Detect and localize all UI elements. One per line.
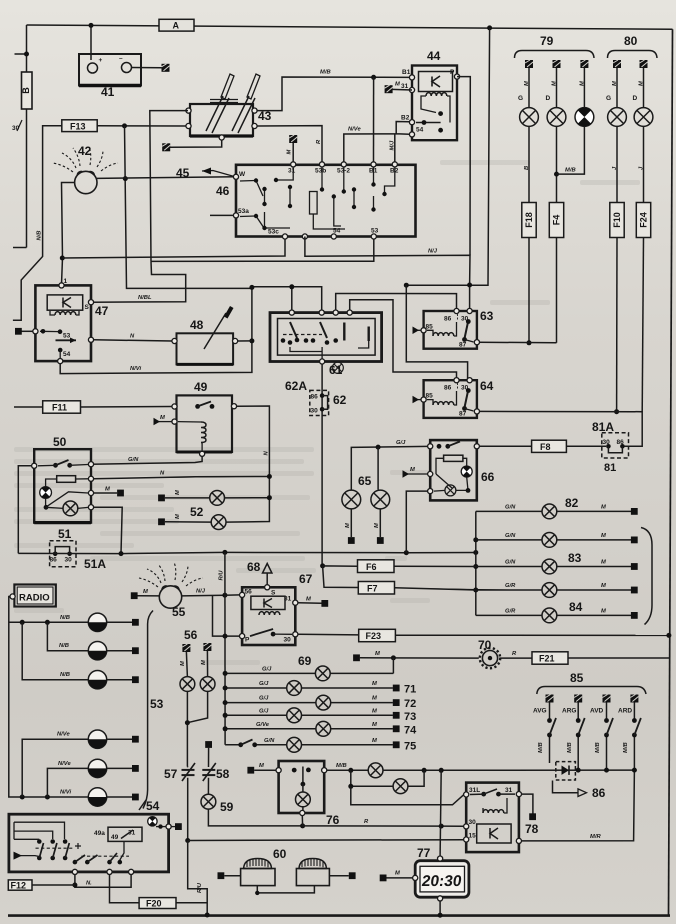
svg-text:M: M bbox=[612, 81, 618, 86]
top supply wire bbox=[27, 25, 673, 29]
lighting switch 66 bbox=[332, 362, 494, 500]
junction top right panel bbox=[487, 25, 492, 30]
connector battery minus bbox=[162, 64, 170, 72]
relay 47 bbox=[33, 278, 109, 364]
svg-text:49a: 49a bbox=[94, 830, 105, 837]
wire 61 bottom to 62 bbox=[321, 364, 323, 566]
svg-text:85: 85 bbox=[426, 324, 434, 331]
svg-text:68: 68 bbox=[247, 560, 261, 574]
wire 55 NJ to bus and 67 bbox=[182, 594, 225, 597]
svg-text:M: M bbox=[601, 560, 606, 566]
tweeters 60 bbox=[218, 847, 356, 895]
svg-text:53: 53 bbox=[150, 697, 164, 711]
svg-text:AVD: AVD bbox=[590, 708, 604, 715]
wire battery minus to connector bbox=[132, 67, 163, 69]
svg-text:M: M bbox=[372, 681, 377, 687]
svg-text:N/Vi: N/Vi bbox=[130, 366, 141, 372]
svg-text:N/Ve: N/Ve bbox=[58, 761, 71, 767]
svg-text:N.: N. bbox=[86, 881, 92, 887]
svg-text:B1: B1 bbox=[402, 69, 411, 76]
connector 64.85 bbox=[416, 399, 421, 401]
wire to 78.31L bbox=[351, 786, 464, 805]
svg-text:G/Ve: G/Ve bbox=[256, 722, 270, 728]
svg-text:57: 57 bbox=[164, 767, 178, 781]
wire 61.t4 to 64.86 bbox=[350, 300, 457, 378]
svg-text:75: 75 bbox=[404, 740, 416, 752]
svg-text:B2: B2 bbox=[401, 115, 410, 122]
wire 77 top feed bbox=[440, 770, 441, 856]
svg-text:63: 63 bbox=[480, 309, 494, 323]
svg-text:G/N: G/N bbox=[128, 457, 139, 463]
svg-text:20:30: 20:30 bbox=[421, 873, 463, 890]
lamp hazard B branch bbox=[351, 770, 424, 786]
wire 77 bottom to bus bbox=[439, 901, 441, 915]
lamp hazard A bbox=[368, 763, 383, 778]
capacitor 62 bbox=[285, 379, 347, 416]
connector 46.31 bbox=[289, 135, 297, 143]
svg-text:G/J: G/J bbox=[259, 681, 269, 687]
svg-text:M: M bbox=[601, 583, 606, 589]
svg-text:M: M bbox=[374, 523, 380, 528]
svg-text:N/Vi: N/Vi bbox=[60, 790, 71, 796]
group 85 bbox=[533, 671, 646, 773]
connector 54 right bbox=[171, 826, 175, 828]
wiper blades bbox=[206, 96, 229, 133]
wire 44.31 connector bbox=[392, 88, 412, 91]
svg-text:G/J: G/J bbox=[259, 708, 269, 714]
svg-text:83: 83 bbox=[568, 551, 582, 565]
lamp column warning 79 bbox=[557, 60, 594, 174]
hazard pilot 76 bbox=[276, 761, 340, 827]
svg-text:55: 55 bbox=[172, 605, 186, 619]
wire 59 row to 78.30 bbox=[300, 823, 305, 828]
wire 43 lower-right to 53b bbox=[257, 126, 322, 163]
fuse F21 bbox=[532, 652, 568, 664]
junction bus 63 bbox=[467, 283, 472, 288]
wire 50.t3 connector bbox=[94, 492, 117, 494]
svg-text:M: M bbox=[601, 533, 606, 539]
speaker group 53 bbox=[9, 611, 164, 809]
svg-text:M: M bbox=[259, 763, 264, 769]
battery 41 bbox=[79, 54, 141, 99]
svg-text:84: 84 bbox=[569, 600, 583, 614]
lamp column G 79 bbox=[518, 60, 538, 345]
lamps 56 bbox=[180, 628, 215, 766]
wire 57 row to 78.15 bbox=[188, 839, 464, 842]
lamp rows 69-75 bbox=[223, 651, 479, 752]
lamp 59 bbox=[201, 794, 303, 826]
svg-text:76: 76 bbox=[326, 813, 340, 827]
svg-text:N/B: N/B bbox=[60, 672, 70, 678]
junction horn42 right bbox=[123, 176, 128, 181]
svg-text:81A: 81A bbox=[592, 420, 614, 434]
svg-text:M/B: M/B bbox=[567, 742, 573, 753]
flasher 58 bbox=[202, 741, 229, 794]
wire 78.31 connector bbox=[522, 794, 533, 813]
junction bus 64 bbox=[404, 283, 409, 288]
svg-text:86: 86 bbox=[592, 786, 606, 800]
svg-text:F24: F24 bbox=[639, 212, 649, 228]
wire 47.53 to 48 bbox=[94, 340, 172, 341]
svg-text:31: 31 bbox=[505, 787, 513, 794]
wire F11 left stub bbox=[14, 406, 43, 408]
light switch 54 bbox=[9, 799, 171, 872]
lamps 65 bbox=[342, 440, 428, 544]
group 80 label and brace bbox=[608, 34, 658, 58]
bottom border wire bbox=[8, 914, 670, 917]
dim relay 51 bbox=[50, 527, 107, 571]
svg-text:1: 1 bbox=[64, 278, 68, 285]
svg-text:F8: F8 bbox=[540, 442, 551, 452]
svg-text:M: M bbox=[579, 81, 585, 86]
svg-text:58: 58 bbox=[216, 767, 230, 781]
svg-text:G/N: G/N bbox=[505, 505, 516, 511]
wire 46.31 up to connector bbox=[292, 142, 294, 162]
svg-text:F4: F4 bbox=[552, 215, 562, 226]
flasher 57 bbox=[164, 763, 210, 918]
connector 49 aux bbox=[158, 421, 172, 423]
svg-text:53b: 53b bbox=[315, 168, 326, 175]
svg-text:A: A bbox=[173, 21, 180, 31]
svg-text:S: S bbox=[85, 304, 90, 311]
svg-text:N/J: N/J bbox=[196, 589, 206, 595]
node 30 tick bbox=[12, 120, 22, 132]
svg-text:67: 67 bbox=[299, 572, 313, 586]
ignition switch 61 bbox=[270, 310, 382, 377]
svg-text:N/J: N/J bbox=[428, 249, 438, 255]
svg-text:15: 15 bbox=[469, 833, 477, 840]
svg-text:64: 64 bbox=[480, 379, 494, 393]
wire 49 right N drop bbox=[226, 406, 269, 522]
svg-text:79: 79 bbox=[540, 34, 554, 48]
svg-text:31: 31 bbox=[288, 168, 296, 175]
svg-text:62A: 62A bbox=[285, 379, 307, 393]
svg-text:M/B: M/B bbox=[623, 742, 629, 753]
wire 63.87 to fuse drops bbox=[477, 341, 557, 344]
svg-text:N/B: N/B bbox=[37, 231, 43, 241]
wire 70 to F21 bbox=[499, 657, 532, 659]
svg-text:73: 73 bbox=[404, 711, 416, 723]
lighter 70 bbox=[478, 638, 500, 668]
wire N/J from 46 bbox=[305, 237, 470, 309]
svg-text:M: M bbox=[639, 81, 645, 86]
svg-text:81: 81 bbox=[604, 462, 616, 474]
wire 62 vert to F6 bbox=[320, 563, 325, 568]
lamp column G 80 bbox=[606, 60, 626, 414]
junction top battery bbox=[89, 23, 94, 28]
arrow 45 bbox=[176, 166, 236, 180]
switch unit 46 bbox=[216, 162, 416, 239]
relay 44 bbox=[401, 49, 460, 140]
arrow 68 bbox=[247, 560, 272, 585]
svg-text:S: S bbox=[271, 590, 276, 597]
svg-text:M: M bbox=[287, 150, 293, 155]
timer relay 78 bbox=[464, 783, 539, 853]
wire 47.54 N/Vi to 48 right bbox=[60, 341, 252, 374]
svg-text:30: 30 bbox=[65, 557, 73, 564]
svg-text:54: 54 bbox=[416, 127, 424, 134]
junction 48 right bbox=[249, 338, 254, 343]
wire 50.t2 N row bbox=[94, 477, 270, 479]
connector 77 left bbox=[387, 877, 413, 879]
wire 43 upper-left bbox=[150, 111, 188, 262]
svg-text:M: M bbox=[375, 651, 380, 657]
svg-text:F23: F23 bbox=[366, 631, 382, 641]
wire 64.87 to fuse drops bbox=[477, 411, 642, 446]
svg-text:F13: F13 bbox=[70, 121, 86, 131]
svg-text:N/B: N/B bbox=[60, 615, 70, 621]
wires 54 bottom bbox=[72, 869, 77, 874]
svg-text:M: M bbox=[201, 660, 207, 665]
svg-text:30: 30 bbox=[311, 408, 319, 415]
46 interior contacts bbox=[240, 167, 395, 229]
svg-text:M: M bbox=[552, 81, 558, 86]
svg-text:B: B bbox=[21, 87, 31, 94]
svg-text:G: G bbox=[518, 95, 523, 102]
svg-text:74: 74 bbox=[404, 724, 417, 736]
svg-text:B: B bbox=[524, 166, 530, 170]
svg-text:M: M bbox=[143, 589, 148, 595]
svg-text:ARD: ARD bbox=[618, 708, 632, 715]
svg-text:51: 51 bbox=[58, 527, 72, 541]
svg-text:M: M bbox=[105, 487, 110, 493]
wire 61.t3 to 63.86 bbox=[336, 294, 457, 311]
wire F21 to border bbox=[568, 657, 669, 659]
svg-text:80: 80 bbox=[624, 34, 638, 48]
svg-text:G/J: G/J bbox=[396, 440, 406, 446]
svg-text:M: M bbox=[372, 696, 377, 702]
svg-text:M/B: M/B bbox=[538, 742, 544, 753]
svg-text:30: 30 bbox=[469, 819, 477, 826]
lamps 52 bbox=[158, 490, 272, 529]
svg-text:G/N: G/N bbox=[505, 560, 516, 566]
svg-text:82: 82 bbox=[565, 496, 579, 510]
wire bus to 67.56 bbox=[225, 594, 240, 596]
svg-text:RADIO: RADIO bbox=[19, 593, 50, 604]
lamp column D 79 bbox=[546, 60, 566, 343]
wire 66 bottom to bus bbox=[406, 491, 427, 553]
lamp column D 80 bbox=[633, 60, 653, 412]
wire 49 bottom GN bbox=[91, 456, 202, 464]
fuse F6 bbox=[358, 560, 395, 573]
wire F11 to 49 bbox=[81, 406, 172, 409]
wire 44.P drop to NJ bbox=[457, 77, 470, 256]
svg-text:86: 86 bbox=[617, 439, 625, 446]
svg-text:53a: 53a bbox=[238, 208, 249, 215]
svg-text:M/B: M/B bbox=[336, 763, 347, 769]
power feed vertical bbox=[406, 28, 489, 285]
svg-text:M/B: M/B bbox=[565, 168, 576, 174]
wire 43 upper-right HB bbox=[257, 77, 412, 111]
svg-text:71: 71 bbox=[404, 684, 416, 696]
svg-text:F6: F6 bbox=[366, 562, 377, 572]
svg-text:42: 42 bbox=[78, 144, 92, 158]
flasher unit 67 bbox=[240, 572, 313, 645]
svg-text:W: W bbox=[239, 171, 246, 178]
svg-text:N/Ve: N/Ve bbox=[348, 127, 361, 133]
svg-text:70: 70 bbox=[478, 638, 492, 652]
svg-text:N/B: N/B bbox=[59, 643, 69, 649]
svg-text:86: 86 bbox=[50, 557, 58, 564]
svg-text:F10: F10 bbox=[612, 212, 622, 228]
svg-text:30: 30 bbox=[603, 439, 611, 446]
wire horn42 right to 46 W bbox=[97, 177, 236, 179]
svg-text:M: M bbox=[372, 722, 377, 728]
svg-text:G/R: G/R bbox=[505, 583, 516, 589]
svg-text:D: D bbox=[546, 95, 551, 102]
svg-text:56: 56 bbox=[184, 628, 198, 642]
svg-text:60: 60 bbox=[273, 847, 287, 861]
svg-text:47: 47 bbox=[95, 304, 109, 318]
svg-text:G/J: G/J bbox=[262, 667, 272, 673]
wire 51A long bus bbox=[18, 552, 476, 553]
wire 67.30 to F23 to border bbox=[298, 633, 359, 636]
junction B1 feed bbox=[371, 75, 376, 80]
fuse F20 bbox=[139, 898, 176, 909]
horn 42 bbox=[53, 144, 118, 194]
svg-text:F12: F12 bbox=[11, 880, 27, 890]
relay 64 bbox=[421, 378, 494, 418]
junction 42 feed bbox=[60, 256, 65, 261]
svg-text:86: 86 bbox=[444, 385, 452, 392]
svg-text:G: G bbox=[606, 95, 611, 102]
svg-text:87: 87 bbox=[459, 342, 467, 349]
capacitor 81A bbox=[592, 420, 629, 474]
wire 66 to F8 bbox=[479, 445, 531, 447]
svg-text:M/J: M/J bbox=[390, 140, 396, 150]
svg-text:M: M bbox=[175, 490, 181, 495]
wire horn42 left down bbox=[62, 183, 75, 285]
wire F13 left drop bbox=[13, 126, 62, 320]
wire F8 to 81A bbox=[566, 445, 606, 447]
wire radio feed down bbox=[9, 597, 89, 798]
fuse F23 bbox=[359, 629, 396, 641]
svg-text:M/B: M/B bbox=[595, 742, 601, 753]
svg-text:F11: F11 bbox=[52, 403, 67, 413]
svg-text:66: 66 bbox=[481, 470, 495, 484]
fuse F11 bbox=[43, 401, 81, 413]
svg-text:+: + bbox=[99, 57, 103, 64]
svg-text:M: M bbox=[175, 514, 181, 519]
svg-text:65: 65 bbox=[358, 474, 372, 488]
svg-text:49: 49 bbox=[194, 380, 208, 394]
svg-text:50: 50 bbox=[53, 435, 67, 449]
svg-text:M: M bbox=[410, 467, 415, 473]
wire 78 bottom MR to 85 bus bbox=[522, 770, 635, 841]
right border wire bbox=[669, 29, 673, 915]
group 79 label and brace bbox=[515, 34, 595, 58]
horn 55 bbox=[139, 562, 203, 619]
svg-text:86: 86 bbox=[444, 316, 452, 323]
svg-text:M: M bbox=[601, 505, 606, 511]
svg-text:M: M bbox=[395, 871, 400, 877]
svg-text:G/J: G/J bbox=[259, 696, 269, 702]
wire 43 bottom to connector bbox=[170, 140, 222, 147]
svg-text:M: M bbox=[180, 661, 186, 666]
wiper motor 43 bbox=[186, 74, 272, 140]
svg-text:54: 54 bbox=[63, 351, 71, 358]
connector 76 left bbox=[254, 769, 276, 771]
junction F13 node bbox=[122, 123, 127, 128]
wire 67.31 connector bbox=[298, 602, 322, 605]
wire 50 left to 51A bus bbox=[18, 466, 31, 554]
svg-text:ARG: ARG bbox=[562, 708, 576, 715]
svg-text:62: 62 bbox=[333, 393, 347, 407]
radio bbox=[10, 585, 56, 607]
svg-text:69: 69 bbox=[298, 654, 312, 668]
svg-text:53: 53 bbox=[63, 333, 71, 340]
svg-text:F7: F7 bbox=[367, 583, 378, 593]
svg-text:M: M bbox=[306, 597, 311, 603]
svg-text:N/Ve: N/Ve bbox=[57, 732, 70, 738]
svg-text:48: 48 bbox=[190, 318, 204, 332]
svg-text:44: 44 bbox=[427, 49, 441, 63]
svg-text:M/R: M/R bbox=[590, 834, 601, 840]
svg-text:M/B: M/B bbox=[320, 70, 331, 76]
svg-text:P: P bbox=[245, 637, 250, 644]
wire left supply drop bbox=[13, 25, 27, 248]
svg-text:85: 85 bbox=[426, 393, 434, 400]
svg-text:53: 53 bbox=[371, 228, 379, 235]
rheostat 50 bbox=[32, 435, 94, 523]
fuse B bbox=[21, 72, 32, 109]
fuse F12 bbox=[8, 880, 32, 890]
tail lamp rows 82-84 bbox=[394, 496, 652, 625]
svg-text:M: M bbox=[345, 523, 351, 528]
connector A box bbox=[159, 19, 194, 31]
svg-text:N/BL: N/BL bbox=[138, 295, 152, 301]
svg-text:53c: 53c bbox=[268, 229, 279, 236]
wire 48 right to junction bbox=[238, 340, 252, 342]
svg-text:54: 54 bbox=[146, 799, 160, 813]
switch 48 bbox=[172, 306, 238, 364]
svg-text:87: 87 bbox=[459, 411, 467, 418]
svg-text:78: 78 bbox=[525, 822, 539, 836]
wire 53c to node bbox=[62, 237, 285, 258]
svg-text:M: M bbox=[160, 415, 165, 421]
wire F13 node down to 48 right bbox=[125, 126, 252, 341]
svg-text:M: M bbox=[524, 81, 530, 86]
svg-text:85: 85 bbox=[570, 671, 584, 685]
wire 50.t4 down to bus bbox=[94, 507, 123, 553]
svg-text:41: 41 bbox=[101, 85, 115, 99]
svg-text:M: M bbox=[372, 738, 377, 744]
wire F13 right to 43 bbox=[97, 125, 188, 127]
svg-text:AVG: AVG bbox=[533, 708, 547, 715]
svg-text:F21: F21 bbox=[539, 654, 555, 664]
relay 63 bbox=[421, 308, 494, 348]
svg-text:30: 30 bbox=[284, 637, 292, 644]
svg-text:M: M bbox=[372, 708, 377, 714]
svg-text:F18: F18 bbox=[524, 212, 534, 228]
svg-text:G/N: G/N bbox=[505, 533, 516, 539]
svg-text:31: 31 bbox=[401, 83, 409, 90]
svg-text:52: 52 bbox=[190, 505, 204, 519]
svg-text:G/R: G/R bbox=[505, 609, 516, 615]
diode box 86 bbox=[553, 762, 606, 800]
main RU bus vertical bbox=[224, 552, 226, 744]
wire battery plus drop bbox=[90, 25, 92, 60]
svg-text:R/U: R/U bbox=[197, 882, 203, 893]
wire 61.t1 t2 feed bbox=[252, 287, 322, 310]
connector 43 ground bbox=[162, 143, 170, 151]
connector 63.85 bbox=[416, 329, 421, 331]
fuse F8 bbox=[532, 440, 567, 452]
fuse F7 bbox=[358, 582, 394, 595]
svg-text:51A: 51A bbox=[84, 557, 106, 571]
svg-text:46: 46 bbox=[216, 184, 230, 198]
svg-text:56: 56 bbox=[245, 589, 253, 596]
